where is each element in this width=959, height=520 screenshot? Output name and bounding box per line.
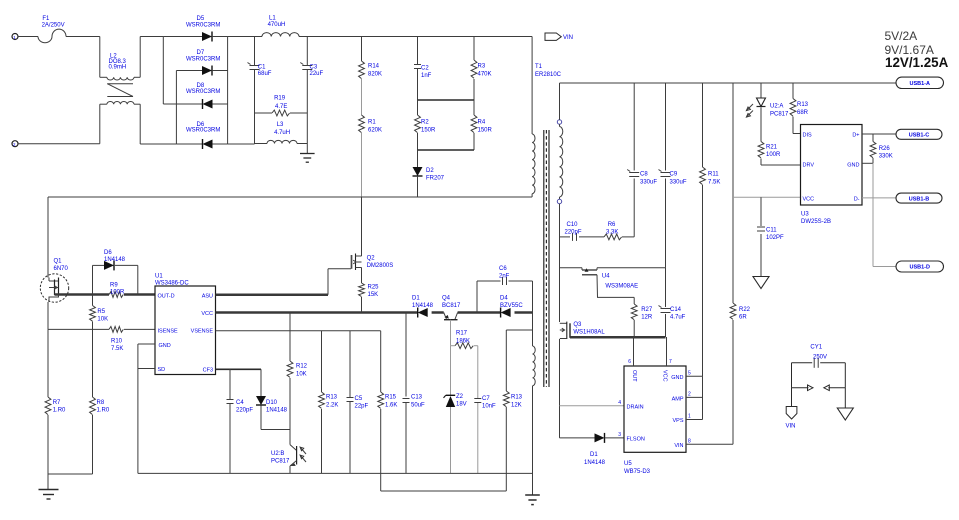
wire R7 R8 bottoms: [48, 473, 93, 475]
wire C6 right to aux top: [532, 281, 534, 346]
svg-text:22uF: 22uF: [310, 71, 324, 77]
svg-text:C5: C5: [355, 396, 363, 402]
svg-text:1N4148: 1N4148: [584, 460, 606, 466]
svg-text:VIN: VIN: [786, 424, 796, 430]
svg-text:GND: GND: [159, 343, 171, 349]
common-mode choke L2 DO8.3 0.9mH: [100, 53, 140, 104]
svg-text:Q2: Q2: [367, 256, 376, 262]
svg-text:470K: 470K: [478, 72, 492, 78]
capacitor C11 102P: [757, 197, 784, 276]
diode D2 FR207: [413, 150, 445, 197]
svg-text:7.5K: 7.5K: [708, 180, 720, 186]
svg-text:GND: GND: [847, 162, 859, 168]
U5 pin4 label: [618, 400, 621, 406]
svg-text:330uF: 330uF: [640, 180, 657, 186]
svg-text:ASU: ASU: [202, 293, 213, 299]
AC input terminal J2 (neutral): [12, 141, 18, 147]
svg-text:SD: SD: [158, 367, 166, 373]
diode D4 BZV55C: [500, 296, 523, 318]
DRV lead wire: [761, 164, 801, 166]
resistor R27 12R: [631, 297, 653, 337]
svg-text:R17: R17: [456, 331, 468, 337]
svg-text:L1: L1: [269, 16, 276, 22]
svg-text:WS1H08AL: WS1H08AL: [573, 330, 605, 336]
svg-text:330uF: 330uF: [670, 180, 687, 186]
opto U2:B PC817: [271, 445, 306, 474]
svg-text:ISENSE: ISENSE: [158, 328, 179, 334]
wire terminal1 to fuse: [18, 36, 38, 38]
wire Q4 base down: [450, 320, 452, 346]
svg-text:R2: R2: [421, 120, 429, 126]
wire Q1 source to sense: [47, 302, 49, 329]
port USB1-A: [896, 77, 944, 88]
U5 pin6 wire: [628, 337, 633, 366]
capacitor C7 10nF: [474, 346, 496, 474]
diode D1 1N4148 (vcc rail): [412, 296, 434, 318]
capacitor C14 4.7uF: [659, 268, 686, 337]
svg-text:DRAIN: DRAIN: [627, 405, 644, 411]
port USB1-C: [896, 129, 942, 139]
svg-text:R27: R27: [641, 307, 653, 313]
wire secondary mid vertical: [559, 204, 561, 322]
svg-text:VIN: VIN: [674, 443, 683, 449]
svg-text:C14: C14: [670, 307, 682, 313]
U5 drain lead: [560, 405, 625, 407]
resistor R6 3.3K: [604, 222, 634, 240]
IC U5 WB75-D3 box: [624, 366, 686, 475]
svg-text:D1: D1: [590, 452, 598, 458]
wire DC+ rail to C1: [228, 36, 262, 38]
ground primary filter: [300, 154, 315, 163]
svg-text:6N70: 6N70: [54, 266, 69, 272]
svg-text:50uF: 50uF: [411, 403, 425, 409]
svg-text:4.7uF: 4.7uF: [670, 315, 686, 321]
svg-text:WS3M08AE: WS3M08AE: [605, 284, 638, 290]
svg-text:2: 2: [688, 392, 691, 398]
wire L1 to C3 and VIN rail: [299, 36, 532, 38]
sync MOSFET U4 WS3M08AE: [560, 268, 666, 298]
svg-text:R8: R8: [97, 400, 105, 406]
svg-text:3: 3: [618, 432, 621, 438]
svg-text:330K: 330K: [879, 154, 893, 160]
diode D5 WSR0C3RM: [163, 16, 227, 42]
resistor R10 7.5K ISENSE: [48, 327, 155, 353]
output ratings text: [885, 29, 949, 70]
svg-text:100R: 100R: [110, 289, 125, 295]
svg-text:R7: R7: [53, 400, 61, 406]
svg-text:10K: 10K: [296, 372, 307, 378]
ground secondary triangle (CY1): [837, 388, 853, 420]
wire clamp junction lower: [418, 149, 475, 151]
svg-text:WB75-D3: WB75-D3: [624, 469, 651, 475]
svg-text:R12: R12: [296, 364, 308, 370]
resistor R3 470K: [471, 37, 491, 101]
svg-text:C9: C9: [670, 172, 678, 178]
ground primary main: [39, 490, 59, 500]
svg-text:D5: D5: [197, 16, 205, 22]
svg-text:WSR0C3RM: WSR0C3RM: [186, 89, 220, 95]
svg-text:C13: C13: [411, 395, 423, 401]
capacitor C3 22uF: [300, 37, 323, 114]
wire C1 bottom to L3: [254, 113, 256, 144]
svg-text:68uF: 68uF: [258, 71, 272, 77]
svg-text:D1: D1: [412, 296, 420, 302]
svg-text:R5: R5: [97, 309, 105, 315]
svg-text:R14: R14: [368, 64, 380, 70]
capacitor C2 1nF: [414, 37, 432, 101]
port VIN bottom: [786, 388, 797, 430]
resistor R11c 7.5K: [700, 83, 721, 376]
svg-text:WSR0C3RM: WSR0C3RM: [186, 56, 220, 62]
svg-text:D-: D-: [854, 196, 860, 202]
wire Q1 drain: [47, 197, 49, 278]
svg-text:BZV55C: BZV55C: [500, 303, 523, 309]
svg-text:15K: 15K: [368, 292, 379, 298]
VCC line secondary: [733, 196, 801, 198]
svg-text:3.3K: 3.3K: [606, 230, 618, 236]
svg-text:USB1-D: USB1-D: [910, 265, 931, 271]
svg-text:1N4148: 1N4148: [104, 257, 126, 263]
svg-text:AMP: AMP: [672, 396, 684, 402]
svg-text:620K: 620K: [368, 128, 382, 134]
svg-text:D7: D7: [197, 50, 205, 56]
svg-text:BC817: BC817: [442, 303, 461, 309]
opto U2:A PC817 LED: [746, 83, 789, 118]
CY1 spark gap arrows: [792, 363, 846, 391]
svg-text:PC817: PC817: [271, 459, 290, 465]
resistor R17 186K: [451, 331, 478, 349]
svg-text:1nF: 1nF: [421, 73, 432, 79]
svg-text:USB1-B: USB1-B: [909, 196, 930, 202]
svg-text:R19: R19: [274, 96, 286, 102]
svg-text:U1: U1: [155, 274, 163, 280]
wire R14 to R1: [361, 79, 363, 115]
svg-text:D6: D6: [104, 250, 112, 256]
svg-text:L3: L3: [277, 122, 284, 128]
VSENSE line: [216, 330, 381, 332]
svg-text:R6: R6: [608, 222, 616, 228]
svg-text:R25: R25: [368, 285, 380, 291]
aux net to R13 line: [506, 329, 532, 331]
resistor R13b 68R: [790, 83, 809, 134]
svg-text:R21: R21: [766, 145, 778, 151]
svg-text:C3: C3: [310, 65, 318, 71]
resistor R5 10K: [90, 295, 108, 323]
svg-text:220pF: 220pF: [236, 408, 253, 414]
svg-text:GND: GND: [671, 375, 683, 381]
svg-text:USB1-C: USB1-C: [909, 133, 930, 139]
svg-text:2A/250V: 2A/250V: [42, 23, 65, 29]
wire choke bottom right to bridge: [140, 104, 176, 144]
svg-text:OUT-D: OUT-D: [158, 293, 175, 299]
svg-text:5: 5: [688, 371, 691, 377]
resistor R9 100R: [109, 283, 125, 298]
svg-text:D+: D+: [852, 132, 859, 138]
capacitor C13 50uF: [403, 313, 426, 474]
wire L3 to ground: [306, 113, 308, 154]
capacitor C6 2nF: [477, 266, 533, 313]
svg-text:18V: 18V: [456, 402, 467, 408]
svg-text:250V: 250V: [813, 354, 827, 360]
svg-text:DIS: DIS: [803, 132, 813, 138]
wire GND to USB1-D: [873, 163, 896, 266]
resistor R13 12K (aux): [503, 330, 522, 491]
svg-text:10nF: 10nF: [482, 404, 496, 410]
svg-text:D2: D2: [426, 168, 434, 174]
diode D10 1N4148: [256, 369, 288, 429]
wire ASU line (thick): [216, 294, 329, 297]
svg-text:R13: R13: [511, 395, 523, 401]
svg-text:F1: F1: [42, 16, 50, 22]
svg-text:22pF: 22pF: [355, 404, 369, 410]
svg-text:CF3: CF3: [203, 367, 213, 373]
svg-text:150R: 150R: [478, 128, 493, 134]
U5 pin2 AMP lead: [686, 392, 703, 398]
svg-text:FR207: FR207: [426, 176, 445, 182]
capacitor C1 68uF: [248, 37, 272, 144]
wire bridge DC+ vertical: [227, 37, 229, 145]
svg-text:1N4148: 1N4148: [266, 408, 288, 414]
svg-text:DRV: DRV: [803, 162, 815, 168]
diode D6b 1N4148 gate: [93, 250, 138, 295]
svg-text:102PF: 102PF: [766, 235, 784, 241]
svg-text:U3: U3: [801, 212, 809, 218]
svg-text:VIN: VIN: [563, 35, 573, 41]
wire DC- rail: [228, 143, 255, 145]
capacitor C8 330uF: [627, 83, 657, 237]
CF3 lead: [216, 368, 262, 370]
svg-text:R11: R11: [708, 172, 719, 178]
diode D8 WSR0C3RM: [163, 83, 227, 109]
svg-text:7.5K: 7.5K: [111, 346, 123, 352]
svg-text:C7: C7: [482, 396, 490, 402]
wire D- to USB1-B: [862, 197, 896, 199]
port VIN (primary rail): [545, 33, 573, 41]
svg-text:U2:B: U2:B: [271, 451, 284, 457]
svg-text:U4: U4: [602, 274, 610, 280]
svg-text:Q3: Q3: [573, 322, 582, 328]
svg-text:820K: 820K: [368, 72, 382, 78]
svg-text:68R: 68R: [797, 110, 809, 116]
svg-text:R1: R1: [368, 120, 376, 126]
svg-text:U2:A: U2:A: [770, 104, 783, 110]
svg-text:0.9mH: 0.9mH: [109, 65, 127, 71]
svg-text:DM2800S: DM2800S: [367, 263, 394, 269]
svg-text:R13: R13: [326, 395, 338, 401]
diode D6 WSR0C3RM: [176, 122, 227, 149]
wire R5 to R8: [92, 322, 94, 398]
GND lead U1: [138, 343, 155, 345]
svg-text:D4: D4: [500, 296, 508, 302]
AC input terminal J1 (line): [12, 34, 18, 41]
svg-text:VSENSE: VSENSE: [191, 328, 214, 334]
svg-text:R10: R10: [111, 339, 123, 345]
wire GND lead U3: [862, 162, 873, 164]
secondary rail wire: [560, 82, 897, 84]
inductor L3 4.7uH: [255, 122, 308, 144]
svg-text:6: 6: [628, 359, 631, 365]
svg-text:150R: 150R: [421, 128, 436, 134]
svg-text:1.6K: 1.6K: [385, 403, 397, 409]
svg-text:WSR0C3RM: WSR0C3RM: [186, 128, 220, 134]
U5 pin1 VPS lead: [686, 414, 703, 420]
U5 pin5 GND lead: [686, 371, 703, 377]
svg-text:FLSON: FLSON: [627, 437, 645, 443]
U5 right bus: [702, 376, 704, 419]
transistor Q2 DM2800S: [352, 197, 394, 270]
U5 pin3 label: [618, 432, 621, 438]
svg-text:2nF: 2nF: [499, 274, 510, 280]
svg-text:470uH: 470uH: [268, 22, 286, 28]
ground transformer aux: [525, 495, 540, 505]
svg-text:6R: 6R: [739, 315, 747, 321]
zener Z2 18V: [444, 346, 467, 474]
resistor R22 6R: [730, 83, 751, 444]
gate drive line left (thick): [55, 293, 156, 296]
svg-text:USB1-A: USB1-A: [910, 81, 931, 87]
svg-text:DW25S-2B: DW25S-2B: [801, 219, 831, 225]
wire bridge AC bus B: [175, 71, 177, 145]
svg-text:R15: R15: [385, 395, 397, 401]
svg-text:220pF: 220pF: [565, 230, 582, 236]
svg-text:4.7uH: 4.7uH: [274, 130, 290, 136]
svg-text:12V/1.25A: 12V/1.25A: [885, 55, 949, 70]
resistor R2 150R: [415, 100, 436, 150]
port USB1-B: [896, 193, 942, 203]
svg-text:D10: D10: [266, 400, 278, 406]
resistor R21 100R: [758, 108, 781, 166]
ground secondary triangle (C11): [753, 277, 769, 289]
capacitor C10 220pF: [560, 222, 605, 241]
wire to ground left: [47, 474, 49, 490]
wire ASU jog to Q2 gate: [328, 269, 351, 295]
svg-text:8: 8: [688, 439, 691, 445]
transformer secondary winding: [557, 83, 562, 204]
svg-text:C4: C4: [236, 400, 244, 406]
DIS lead wire: [793, 133, 801, 135]
capacitor C4 220pF: [227, 369, 254, 473]
svg-text:4.7E: 4.7E: [275, 104, 287, 110]
IC U3 DW25S-2B box: [801, 125, 863, 226]
svg-text:R13: R13: [797, 102, 809, 108]
resistor R7 1R0: [45, 329, 66, 474]
diode D7 WSR0C3RM: [176, 50, 227, 76]
capacitor CY1 250V: [792, 345, 846, 368]
svg-text:R9: R9: [110, 283, 118, 289]
port USB1-D: [896, 261, 944, 272]
svg-text:C1: C1: [258, 65, 266, 71]
resistor R14 820K: [359, 37, 382, 79]
wire bridge AC bus A: [162, 37, 164, 105]
svg-text:Z2: Z2: [456, 394, 464, 400]
inductor L1 470uH: [262, 16, 299, 37]
svg-text:1N4148: 1N4148: [412, 303, 434, 309]
svg-text:5V/2A: 5V/2A: [885, 29, 918, 43]
svg-text:R26: R26: [879, 146, 891, 152]
svg-text:186K: 186K: [456, 339, 470, 345]
svg-text:Q4: Q4: [442, 296, 451, 302]
capacitor C9 330uF: [659, 83, 687, 268]
wire R1 to drain line: [361, 133, 363, 197]
VCC thick rail: [216, 311, 533, 314]
wire drain line: [48, 196, 532, 198]
transistor Q3 WS1H08AL: [560, 322, 606, 339]
resistor R26 330K: [870, 134, 893, 163]
wire fuse to choke top: [66, 37, 100, 78]
transistor Q4 BC817: [442, 296, 461, 320]
wire choke top right to rail: [140, 37, 163, 78]
svg-text:1.R0: 1.R0: [53, 408, 66, 414]
svg-text:WS3486-DC: WS3486-DC: [155, 281, 189, 287]
svg-text:VCC: VCC: [803, 196, 815, 202]
svg-text:R3: R3: [478, 64, 486, 70]
U5 pin7 wire: [667, 337, 673, 366]
wire D+ to USB1-C: [862, 133, 896, 135]
svg-text:C8: C8: [640, 172, 648, 178]
diode D1b 1N4148 FLSON: [560, 433, 625, 466]
transformer T1 ER2810C primary winding: [532, 37, 562, 198]
wire terminal2 to choke bottom: [18, 104, 100, 144]
resistor R13b 2.2K: [319, 331, 339, 474]
resistor R19 4.7E: [255, 96, 308, 116]
transformer aux winding: [533, 346, 536, 386]
svg-text:CY1: CY1: [810, 345, 822, 351]
svg-text:12R: 12R: [641, 315, 653, 321]
Q3 drain thick line: [570, 336, 666, 339]
svg-text:VCC: VCC: [662, 370, 668, 382]
svg-text:R4: R4: [478, 120, 486, 126]
svg-text:C6: C6: [499, 266, 507, 272]
svg-text:R22: R22: [739, 307, 751, 313]
resistor R25 15K: [359, 268, 380, 313]
capacitor C5 22pF: [347, 331, 369, 474]
svg-text:C10: C10: [567, 222, 579, 228]
transformer core: [544, 130, 549, 387]
op-amp U1 WS3486-DC controller box: [155, 274, 216, 375]
wire D10 to opto: [261, 430, 290, 445]
SD lead U1: [138, 368, 155, 370]
svg-text:1: 1: [688, 414, 691, 420]
resistor R15 1.6K: [378, 331, 398, 491]
wire bottom net line1: [138, 472, 533, 474]
svg-text:Q1: Q1: [54, 259, 63, 265]
svg-text:1.R0: 1.R0: [97, 408, 110, 414]
svg-text:WSR0C3RM: WSR0C3RM: [186, 23, 220, 29]
svg-text:ER2810C: ER2810C: [535, 72, 562, 78]
resistor R4 150R: [471, 100, 492, 150]
resistor R8 1R0: [90, 397, 110, 474]
fuse F1 2A/250V: [38, 16, 66, 43]
transistor Q1 6N70: [40, 259, 68, 303]
svg-text:4: 4: [618, 400, 621, 406]
wire clamp junction upper: [418, 99, 475, 101]
wire aux bottom to ground: [532, 386, 534, 495]
svg-text:U5: U5: [624, 461, 632, 467]
svg-text:OUT: OUT: [631, 370, 637, 382]
svg-text:2.2K: 2.2K: [326, 403, 338, 409]
svg-text:C2: C2: [421, 66, 429, 72]
svg-text:12K: 12K: [511, 403, 522, 409]
resistor R1 620K: [359, 115, 382, 134]
svg-text:PC817: PC817: [770, 112, 789, 118]
svg-text:C11: C11: [766, 228, 777, 234]
wire bottom net line2: [381, 490, 507, 492]
svg-text:VPS: VPS: [672, 418, 683, 424]
U5 pin8 VIN lead: [686, 439, 733, 445]
svg-text:VCC: VCC: [201, 311, 213, 317]
wire U1 gnd vertical: [137, 344, 139, 473]
svg-text:7: 7: [669, 359, 672, 365]
